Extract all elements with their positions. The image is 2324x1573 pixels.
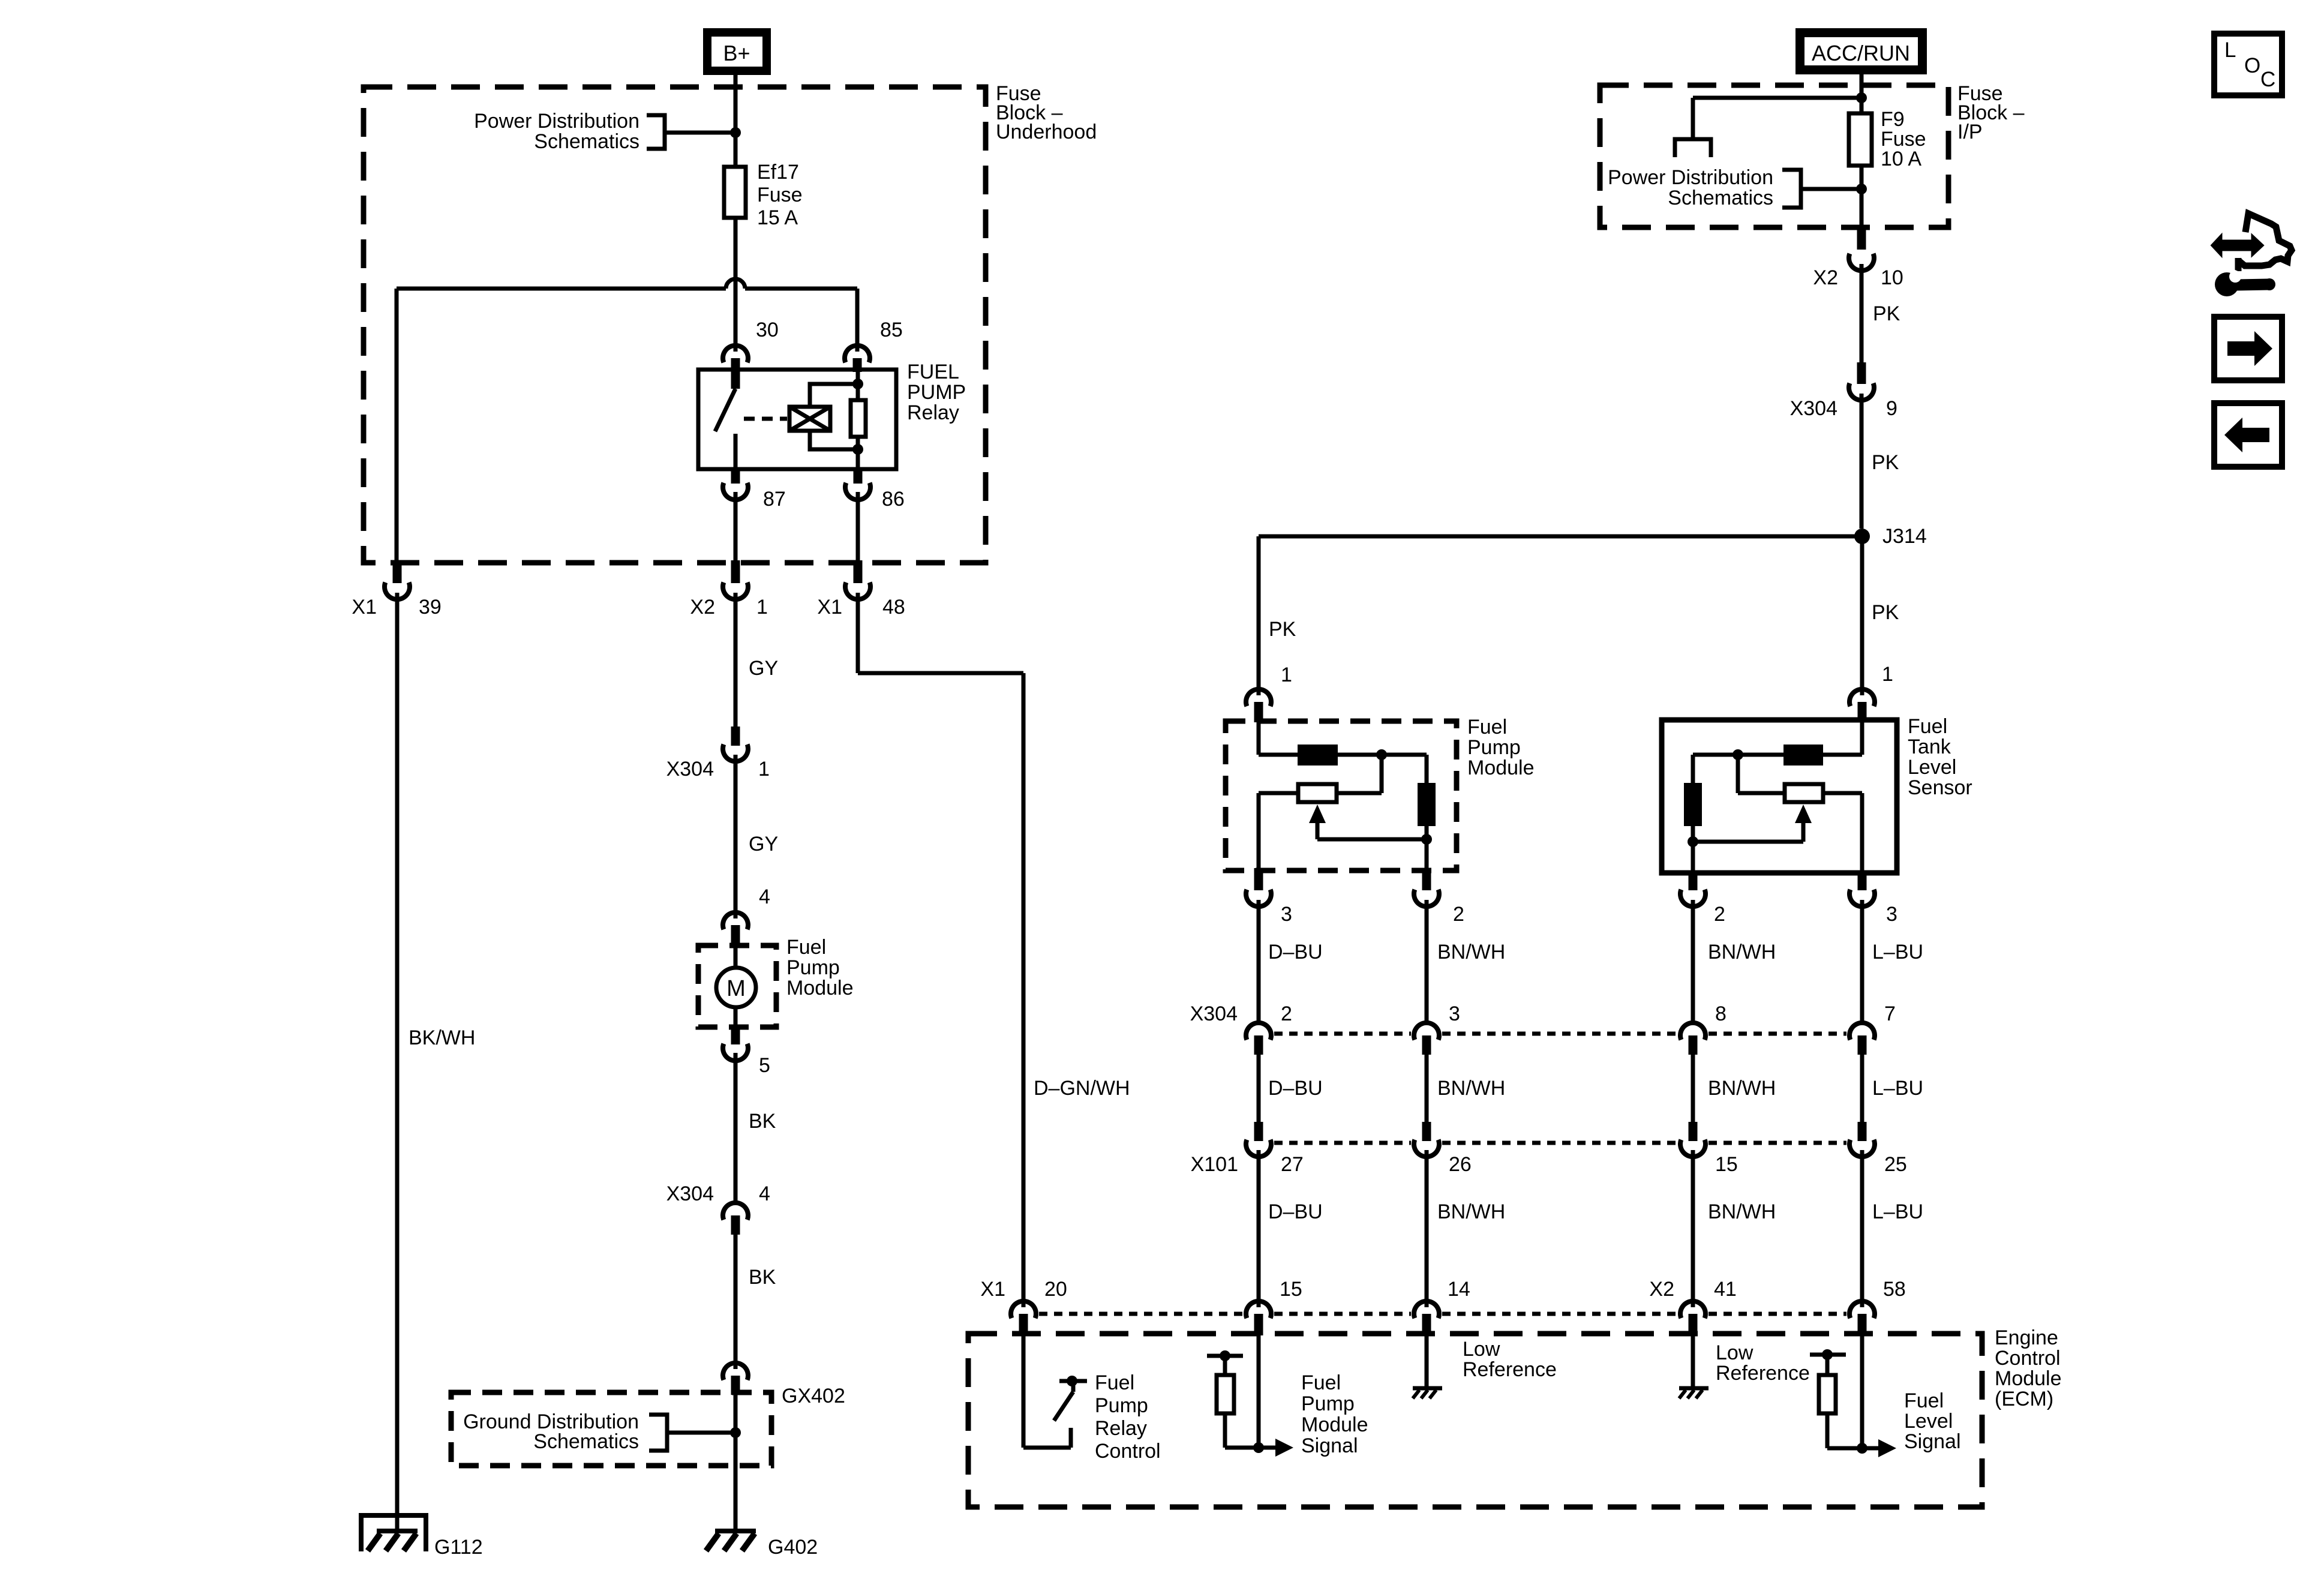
svg-text:7: 7 bbox=[1884, 1002, 1896, 1025]
svg-text:ACC/RUN: ACC/RUN bbox=[1812, 41, 1910, 65]
svg-text:BN/WH: BN/WH bbox=[1708, 1077, 1776, 1100]
svg-text:Fuel: Fuel bbox=[1904, 1389, 1944, 1412]
svg-text:Control: Control bbox=[1995, 1347, 2061, 1370]
svg-text:2: 2 bbox=[1453, 903, 1464, 926]
svg-text:GX402: GX402 bbox=[782, 1385, 845, 1407]
svg-text:I/P: I/P bbox=[1957, 121, 1983, 143]
svg-text:D–GN/WH: D–GN/WH bbox=[1034, 1077, 1130, 1100]
svg-text:X2: X2 bbox=[1649, 1278, 1674, 1301]
svg-text:3: 3 bbox=[1281, 903, 1292, 926]
svg-text:Level: Level bbox=[1904, 1410, 1953, 1433]
svg-text:Control: Control bbox=[1095, 1440, 1161, 1463]
svg-text:X304: X304 bbox=[666, 1182, 714, 1205]
svg-text:G112: G112 bbox=[434, 1536, 483, 1559]
svg-text:Level: Level bbox=[1908, 756, 1956, 779]
svg-text:X101: X101 bbox=[1191, 1153, 1238, 1176]
svg-text:D–BU: D–BU bbox=[1268, 1077, 1323, 1100]
svg-text:J314: J314 bbox=[1882, 525, 1927, 548]
svg-text:20: 20 bbox=[1044, 1278, 1067, 1301]
svg-text:Schematics: Schematics bbox=[533, 1430, 639, 1453]
svg-text:15: 15 bbox=[1715, 1153, 1738, 1176]
svg-text:BN/WH: BN/WH bbox=[1437, 1077, 1505, 1100]
svg-text:L–BU: L–BU bbox=[1872, 1200, 1923, 1223]
svg-text:Relay: Relay bbox=[1095, 1417, 1147, 1440]
svg-text:Fuel: Fuel bbox=[1467, 716, 1507, 739]
svg-text:PK: PK bbox=[1872, 601, 1899, 624]
svg-text:3: 3 bbox=[1886, 903, 1897, 926]
svg-text:2: 2 bbox=[1714, 903, 1725, 926]
svg-text:Relay: Relay bbox=[907, 401, 959, 424]
svg-text:2: 2 bbox=[1281, 1002, 1292, 1025]
svg-text:Low: Low bbox=[1716, 1341, 1753, 1364]
svg-text:1: 1 bbox=[1281, 664, 1292, 686]
svg-text:PK: PK bbox=[1269, 618, 1296, 641]
svg-text:BN/WH: BN/WH bbox=[1437, 941, 1505, 963]
svg-text:Pump: Pump bbox=[1467, 736, 1521, 759]
svg-text:X1: X1 bbox=[980, 1278, 1005, 1301]
svg-text:85: 85 bbox=[880, 319, 903, 341]
svg-text:D–BU: D–BU bbox=[1268, 941, 1323, 963]
svg-text:X2: X2 bbox=[1813, 266, 1838, 289]
svg-text:FUEL: FUEL bbox=[907, 361, 959, 383]
svg-text:Power Distribution: Power Distribution bbox=[1608, 166, 1773, 189]
svg-text:O: O bbox=[2244, 54, 2260, 77]
svg-text:Engine: Engine bbox=[1995, 1326, 2058, 1349]
svg-text:Reference: Reference bbox=[1716, 1362, 1810, 1385]
svg-text:Fuse: Fuse bbox=[757, 184, 803, 206]
svg-text:Schematics: Schematics bbox=[534, 130, 639, 153]
svg-text:26: 26 bbox=[1449, 1153, 1472, 1176]
svg-text:Pump: Pump bbox=[786, 956, 840, 979]
svg-text:Signal: Signal bbox=[1301, 1434, 1358, 1457]
svg-text:GY: GY bbox=[749, 833, 778, 855]
svg-text:Fuel: Fuel bbox=[786, 936, 826, 959]
svg-text:X304: X304 bbox=[666, 758, 714, 781]
svg-text:30: 30 bbox=[756, 319, 779, 341]
svg-text:X1: X1 bbox=[352, 596, 377, 619]
svg-text:Low: Low bbox=[1463, 1338, 1500, 1361]
svg-text:M: M bbox=[726, 976, 746, 1001]
svg-text:Fuel: Fuel bbox=[1301, 1371, 1341, 1394]
svg-text:Schematics: Schematics bbox=[1668, 187, 1773, 209]
svg-text:1: 1 bbox=[758, 758, 770, 781]
svg-text:Module: Module bbox=[1301, 1413, 1368, 1436]
svg-text:Tank: Tank bbox=[1908, 736, 1951, 758]
svg-text:BN/WH: BN/WH bbox=[1437, 1200, 1505, 1223]
svg-text:Module: Module bbox=[1467, 757, 1535, 779]
svg-text:Ef17: Ef17 bbox=[757, 161, 799, 184]
svg-text:10 A: 10 A bbox=[1881, 148, 1921, 170]
svg-text:BK: BK bbox=[749, 1266, 776, 1289]
svg-text:39: 39 bbox=[419, 596, 442, 619]
svg-text:L–BU: L–BU bbox=[1872, 941, 1923, 963]
svg-text:8: 8 bbox=[1715, 1002, 1727, 1025]
svg-text:X2: X2 bbox=[690, 596, 715, 619]
svg-text:1: 1 bbox=[756, 596, 768, 619]
svg-text:Module: Module bbox=[1995, 1367, 2062, 1390]
svg-text:Pump: Pump bbox=[1301, 1392, 1355, 1415]
svg-text:Pump: Pump bbox=[1095, 1394, 1148, 1417]
svg-text:4: 4 bbox=[759, 1182, 770, 1205]
svg-text:C: C bbox=[2260, 68, 2275, 91]
svg-text:3: 3 bbox=[1449, 1002, 1460, 1025]
svg-text:B+: B+ bbox=[723, 41, 750, 65]
svg-text:5: 5 bbox=[759, 1054, 770, 1077]
svg-text:BK: BK bbox=[749, 1110, 776, 1133]
svg-text:58: 58 bbox=[1883, 1278, 1906, 1301]
svg-text:D–BU: D–BU bbox=[1268, 1200, 1323, 1223]
svg-text:GY: GY bbox=[749, 657, 778, 680]
svg-text:BN/WH: BN/WH bbox=[1708, 1200, 1776, 1223]
svg-text:(ECM): (ECM) bbox=[1995, 1388, 2053, 1410]
svg-text:Underhood: Underhood bbox=[996, 121, 1097, 143]
svg-text:4: 4 bbox=[759, 885, 770, 908]
svg-text:86: 86 bbox=[882, 488, 905, 511]
svg-text:Module: Module bbox=[786, 977, 854, 999]
svg-text:X1: X1 bbox=[817, 596, 842, 619]
svg-text:25: 25 bbox=[1884, 1153, 1907, 1176]
svg-text:BN/WH: BN/WH bbox=[1708, 941, 1776, 963]
svg-text:G402: G402 bbox=[768, 1536, 818, 1559]
svg-text:Power Distribution: Power Distribution bbox=[474, 110, 639, 133]
svg-text:PUMP: PUMP bbox=[907, 381, 966, 404]
svg-text:Sensor: Sensor bbox=[1908, 776, 1972, 799]
svg-text:Fuel: Fuel bbox=[1908, 715, 1947, 738]
svg-text:Fuel: Fuel bbox=[1095, 1371, 1134, 1394]
svg-text:L: L bbox=[2224, 38, 2236, 62]
svg-text:27: 27 bbox=[1281, 1153, 1304, 1176]
svg-text:9: 9 bbox=[1886, 397, 1897, 420]
svg-text:X304: X304 bbox=[1190, 1002, 1238, 1025]
svg-text:87: 87 bbox=[763, 488, 786, 511]
svg-text:X304: X304 bbox=[1790, 397, 1837, 420]
svg-text:PK: PK bbox=[1872, 451, 1899, 474]
svg-text:Signal: Signal bbox=[1904, 1430, 1961, 1453]
svg-text:14: 14 bbox=[1448, 1278, 1470, 1301]
svg-text:PK: PK bbox=[1873, 302, 1900, 325]
svg-text:41: 41 bbox=[1714, 1278, 1737, 1301]
svg-text:15: 15 bbox=[1280, 1278, 1302, 1301]
svg-text:Reference: Reference bbox=[1463, 1358, 1557, 1381]
svg-text:15 A: 15 A bbox=[757, 206, 798, 229]
svg-text:48: 48 bbox=[882, 596, 905, 619]
svg-text:1: 1 bbox=[1882, 663, 1893, 686]
svg-text:10: 10 bbox=[1881, 266, 1903, 289]
svg-text:L–BU: L–BU bbox=[1872, 1077, 1923, 1100]
svg-text:BK/WH: BK/WH bbox=[409, 1026, 475, 1049]
